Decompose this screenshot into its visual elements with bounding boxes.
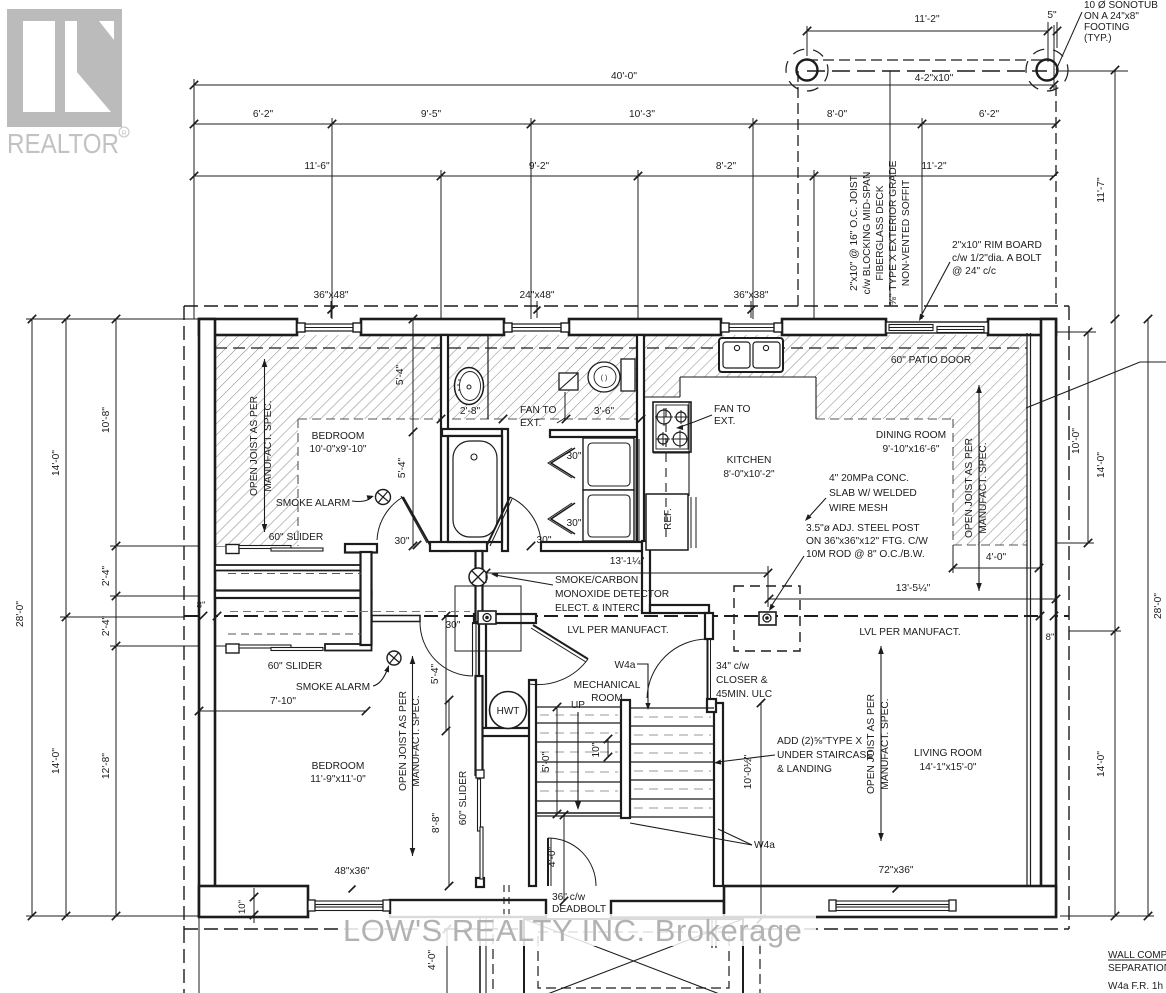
svg-text:40'-0": 40'-0" <box>611 71 637 82</box>
svg-text:OPEN JOIST AS PER: OPEN JOIST AS PER <box>866 694 877 794</box>
svg-text:8'-8": 8'-8" <box>431 812 442 833</box>
svg-text:ON 36"x36"x12" FTG. C/W: ON 36"x36"x12" FTG. C/W <box>806 536 928 547</box>
svg-text:60" SLIDER: 60" SLIDER <box>269 532 324 543</box>
svg-text:30": 30" <box>567 518 582 529</box>
svg-text:BEDROOM: BEDROOM <box>312 431 365 442</box>
svg-text:LVL PER MANUFACT.: LVL PER MANUFACT. <box>567 625 668 636</box>
svg-text:3'-6": 3'-6" <box>594 406 615 417</box>
svg-text:LIVING ROOM: LIVING ROOM <box>914 748 982 759</box>
svg-text:14'-1"x15'-0": 14'-1"x15'-0" <box>920 762 977 773</box>
svg-text:10'-0": 10'-0" <box>1071 428 1082 454</box>
svg-text:LVL PER MANUFACT.: LVL PER MANUFACT. <box>859 627 960 638</box>
svg-text:MANUFACT. SPEC.: MANUFACT. SPEC. <box>411 695 422 786</box>
svg-text:34" c/w: 34" c/w <box>716 661 750 672</box>
svg-text:2'-8": 2'-8" <box>460 406 481 417</box>
svg-text:NON-VENTED SOFFIT: NON-VENTED SOFFIT <box>901 180 912 286</box>
svg-text:EXT.: EXT. <box>520 418 542 429</box>
svg-text:MANUFACT. SPEC.: MANUFACT. SPEC. <box>880 698 891 789</box>
svg-text:9'-5": 9'-5" <box>421 109 442 120</box>
svg-text:8'-0"x10'-2": 8'-0"x10'-2" <box>723 469 775 480</box>
svg-text:60" SLIDER: 60" SLIDER <box>268 661 323 672</box>
svg-text:8'-2": 8'-2" <box>716 161 737 172</box>
svg-text:( ): ( ) <box>601 375 608 382</box>
svg-text:36" c/w: 36" c/w <box>552 892 586 903</box>
svg-text:48"x36": 48"x36" <box>335 866 370 877</box>
svg-text:11'-2": 11'-2" <box>921 161 947 172</box>
svg-text:10": 10" <box>591 742 602 757</box>
svg-text:28'-0": 28'-0" <box>1153 593 1164 619</box>
svg-text:30": 30" <box>395 536 410 547</box>
svg-text:SMOKE ALARM: SMOKE ALARM <box>276 498 350 509</box>
svg-text:8'-0": 8'-0" <box>827 109 848 120</box>
svg-text:5'-4": 5'-4" <box>397 457 408 478</box>
svg-text:4'-0": 4'-0" <box>427 949 438 970</box>
svg-text:REALTOR: REALTOR <box>7 128 119 159</box>
svg-text:12'-8": 12'-8" <box>101 753 112 779</box>
svg-text:@ 24" c/c: @ 24" c/c <box>952 266 996 277</box>
svg-text:28'-0": 28'-0" <box>15 601 26 627</box>
svg-text:MANUFACT. SPEC.: MANUFACT. SPEC. <box>263 400 274 491</box>
svg-text:8": 8" <box>1046 632 1055 643</box>
svg-text:MONOXIDE DETECTOR: MONOXIDE DETECTOR <box>555 589 669 600</box>
svg-text:6'-2": 6'-2" <box>979 109 1000 120</box>
svg-text:8": 8" <box>197 600 206 611</box>
svg-text:24"x48": 24"x48" <box>520 290 555 301</box>
svg-text:UNDER STAIRCASE: UNDER STAIRCASE <box>777 750 873 761</box>
svg-text:9'-10"x16'-6": 9'-10"x16'-6" <box>883 444 940 455</box>
svg-text:3.5"ø ADJ. STEEL POST: 3.5"ø ADJ. STEEL POST <box>806 523 920 534</box>
svg-text:4" 20MPa CONC.: 4" 20MPa CONC. <box>829 473 909 484</box>
svg-text:6'-2": 6'-2" <box>253 109 274 120</box>
svg-text:5'-4": 5'-4" <box>395 364 406 385</box>
svg-text:SEPARATION: SEPARATION <box>1108 963 1166 974</box>
svg-text:c/w BLOCKING MID-SPAN: c/w BLOCKING MID-SPAN <box>862 172 873 295</box>
svg-text:ON A 24"x8": ON A 24"x8" <box>1084 11 1139 22</box>
svg-text:ELECT. & INTERC.: ELECT. & INTERC. <box>555 603 643 614</box>
svg-text:5": 5" <box>1047 10 1057 21</box>
svg-text:DINING ROOM: DINING ROOM <box>876 430 946 441</box>
svg-text:& LANDING: & LANDING <box>777 764 832 775</box>
svg-text:WALL COMP: WALL COMP <box>1108 950 1166 961</box>
svg-text:CLOSER &: CLOSER & <box>716 675 768 686</box>
svg-text:14'-0": 14'-0" <box>51 748 62 774</box>
svg-text:W4a: W4a <box>754 840 775 851</box>
svg-text:14'-0": 14'-0" <box>1096 452 1107 478</box>
svg-text:10'-0"x9'-10": 10'-0"x9'-10" <box>310 444 367 455</box>
svg-text:36"x38": 36"x38" <box>734 290 769 301</box>
svg-text:WIRE MESH: WIRE MESH <box>829 503 888 514</box>
svg-text:11'-9"x11'-0": 11'-9"x11'-0" <box>310 774 366 785</box>
svg-text:4'-0": 4'-0" <box>986 552 1007 563</box>
svg-text:5'-0": 5'-0" <box>541 751 552 772</box>
svg-text:SMOKE/CARBON: SMOKE/CARBON <box>555 575 638 586</box>
svg-text:14'-0": 14'-0" <box>51 450 62 476</box>
svg-text:10M ROD @ 8" O.C./B.W.: 10M ROD @ 8" O.C./B.W. <box>806 549 925 560</box>
svg-text:R: R <box>121 131 126 138</box>
svg-text:2'-4": 2'-4" <box>101 565 112 586</box>
svg-text:36"x48": 36"x48" <box>314 290 349 301</box>
svg-text:⅝" TYPE X EXTERIOR GRADE: ⅝" TYPE X EXTERIOR GRADE <box>888 160 899 305</box>
svg-text:11'-2": 11'-2" <box>914 14 940 25</box>
svg-text:13'-1¼": 13'-1¼" <box>610 555 645 567</box>
svg-text:72"x36": 72"x36" <box>879 865 914 876</box>
svg-text:BEDROOM: BEDROOM <box>312 761 365 772</box>
svg-text:FOOTING: FOOTING <box>1084 22 1130 33</box>
svg-text:UP: UP <box>571 700 585 711</box>
svg-text:W4a F.R. 1h: W4a F.R. 1h <box>1108 981 1163 992</box>
svg-text:OPEN JOIST AS PER: OPEN JOIST AS PER <box>964 438 975 538</box>
svg-text:14'-0": 14'-0" <box>1096 751 1107 777</box>
svg-text:10'-3": 10'-3" <box>629 109 655 120</box>
svg-text:7'-10": 7'-10" <box>270 696 296 707</box>
svg-text:10 Ø SONOTUB: 10 Ø SONOTUB <box>1084 0 1158 11</box>
svg-text:(TYP.): (TYP.) <box>1084 33 1112 44</box>
svg-text:FAN TO: FAN TO <box>520 405 556 416</box>
svg-text:10'-8": 10'-8" <box>101 407 112 433</box>
svg-text:60" SLIDER: 60" SLIDER <box>458 771 469 826</box>
svg-text:11'-7": 11'-7" <box>1096 177 1107 203</box>
svg-text:4-2"x10": 4-2"x10" <box>915 73 954 84</box>
svg-text:EXT.: EXT. <box>714 416 736 427</box>
svg-text:30": 30" <box>446 620 461 631</box>
svg-text:30": 30" <box>567 451 582 462</box>
svg-text:FIBERGLASS DECK: FIBERGLASS DECK <box>875 185 886 280</box>
svg-text:OPEN JOIST AS PER: OPEN JOIST AS PER <box>249 396 260 496</box>
svg-text:REF.: REF. <box>663 508 674 530</box>
svg-text:10'-0½": 10'-0½" <box>743 754 754 789</box>
svg-text:2"x10" RIM BOARD: 2"x10" RIM BOARD <box>952 240 1042 251</box>
svg-text:10": 10" <box>237 900 248 914</box>
svg-text:KITCHEN: KITCHEN <box>727 455 772 466</box>
svg-text:60" PATIO DOOR: 60" PATIO DOOR <box>891 355 971 366</box>
svg-text:11'-6": 11'-6" <box>304 161 330 172</box>
svg-text:30": 30" <box>537 535 552 546</box>
svg-text:9'-2": 9'-2" <box>529 161 550 172</box>
svg-text:4'-0": 4'-0" <box>547 846 558 867</box>
svg-text:LOW'S REALTY INC. Brokerage: LOW'S REALTY INC. Brokerage <box>343 913 802 948</box>
svg-text:ADD (2)⅝"TYPE X: ADD (2)⅝"TYPE X <box>777 736 862 747</box>
svg-text:MANUFACT. SPEC.: MANUFACT. SPEC. <box>978 442 989 533</box>
svg-text:HWT: HWT <box>497 706 520 717</box>
svg-text:45MIN. ULC: 45MIN. ULC <box>716 689 772 700</box>
svg-text:W4a: W4a <box>615 660 636 671</box>
svg-text:OPEN JOIST AS PER: OPEN JOIST AS PER <box>398 691 409 791</box>
svg-text:2"x10" @ 16" O.C. JOIST: 2"x10" @ 16" O.C. JOIST <box>849 175 860 291</box>
svg-text:13'-5¼": 13'-5¼" <box>896 582 931 594</box>
svg-text:SMOKE ALARM: SMOKE ALARM <box>296 682 370 693</box>
svg-text:FAN TO: FAN TO <box>714 404 750 415</box>
svg-text:MECHANICAL: MECHANICAL <box>574 680 641 691</box>
svg-text:2'-4": 2'-4" <box>101 615 112 636</box>
svg-text:5'-4": 5'-4" <box>430 663 441 684</box>
svg-text:ROOM: ROOM <box>591 693 623 704</box>
svg-text:SLAB W/ WELDED: SLAB W/ WELDED <box>829 488 917 499</box>
svg-text:c/w 1/2"dia. A BOLT: c/w 1/2"dia. A BOLT <box>952 253 1042 264</box>
